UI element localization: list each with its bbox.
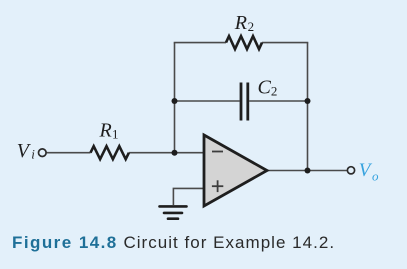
- node: C2 left junction: [172, 98, 178, 104]
- label Vo: [359, 160, 379, 184]
- capacitor C2: [241, 83, 248, 121]
- wire output: [267, 170, 347, 172]
- wire right feedback vertical: [307, 43, 309, 171]
- label C2: [258, 77, 278, 99]
- svg-text:1: 1: [112, 127, 119, 142]
- op-amp U1: [204, 135, 267, 206]
- node: C2 right junction: [305, 98, 311, 104]
- svg-text:2: 2: [271, 84, 278, 99]
- wire R1 to inverting input: [129, 152, 204, 154]
- svg-text:o: o: [372, 169, 379, 184]
- op-amp minus sign: [212, 151, 223, 153]
- wire C2 left: [175, 100, 240, 102]
- svg-text:i: i: [31, 147, 35, 162]
- node: inverting input junction: [172, 150, 178, 156]
- svg-text:R: R: [99, 120, 112, 142]
- wire input to R1: [47, 152, 91, 154]
- op-amp plus sign: [212, 180, 223, 192]
- wire noninverting input: [173, 188, 204, 205]
- label Vi: [17, 140, 35, 162]
- output terminal: [347, 167, 354, 174]
- resistor R1: [91, 146, 129, 159]
- wire C2 right: [249, 100, 307, 102]
- label R1: [99, 120, 119, 142]
- label R2: [234, 12, 254, 34]
- wire R2 to top right: [262, 42, 308, 44]
- input terminal: [39, 149, 47, 157]
- wire top left to R2: [174, 42, 226, 44]
- svg-text:R: R: [234, 12, 247, 34]
- svg-text:C: C: [258, 77, 272, 99]
- figure caption: [12, 233, 335, 253]
- svg-text:2: 2: [248, 19, 255, 34]
- wire left feedback vertical: [174, 43, 176, 153]
- ground: [160, 206, 187, 218]
- node: output junction: [305, 168, 311, 174]
- resistor R2: [226, 36, 262, 49]
